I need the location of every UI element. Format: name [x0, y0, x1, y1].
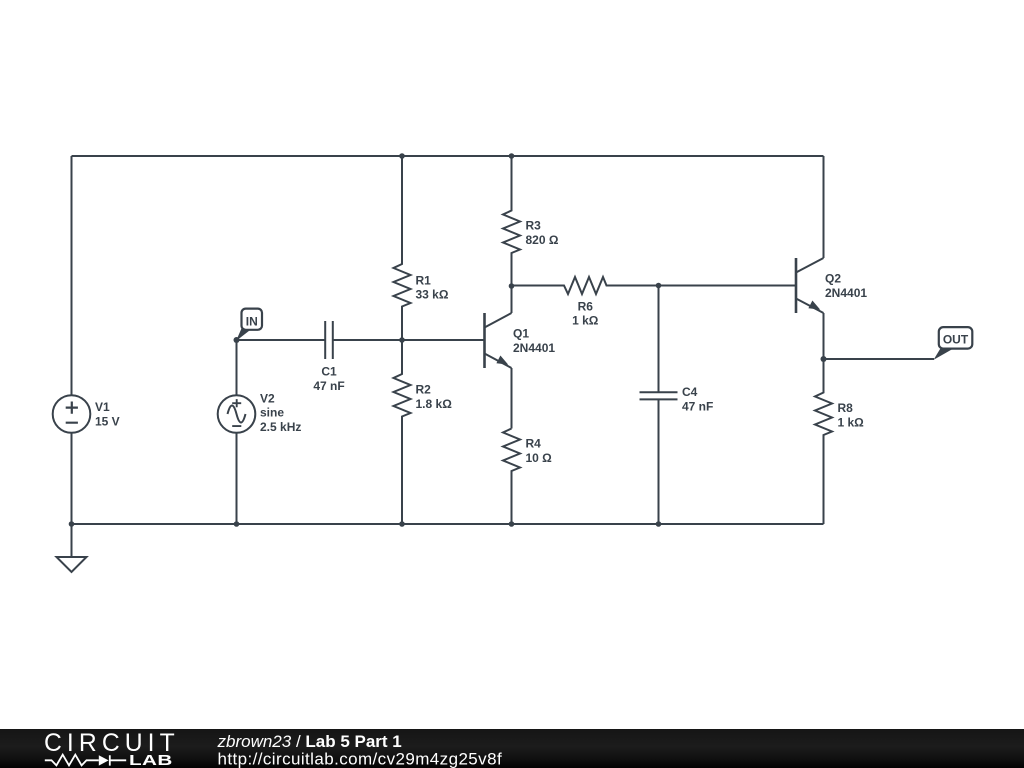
svg-text:C1: C1: [321, 364, 337, 378]
node V2 bottom: [234, 521, 240, 527]
node Q1 base: [399, 337, 405, 343]
svg-text:OUT: OUT: [943, 333, 969, 347]
resistor R8: [815, 359, 832, 524]
svg-text:820 Ω: 820 Ω: [526, 233, 559, 247]
svg-text:R4: R4: [526, 437, 542, 451]
node R3 top: [509, 153, 515, 159]
wire OUT node to flag: [824, 358, 935, 360]
svg-text:2N4401: 2N4401: [513, 341, 555, 355]
svg-text:1 kΩ: 1 kΩ: [838, 415, 865, 429]
resistor R6: [512, 277, 659, 294]
node R4 bottom: [509, 521, 515, 527]
svg-text:V2: V2: [260, 391, 275, 405]
wire V2 top to IN node: [236, 340, 238, 395]
svg-text:10 Ω: 10 Ω: [526, 451, 553, 465]
footer bar: [0, 729, 1024, 768]
svg-text:1 kΩ: 1 kΩ: [572, 314, 599, 328]
resistor R1: [394, 156, 411, 340]
voltage source V2: [218, 395, 256, 433]
node C4 bottom: [656, 521, 662, 527]
resistor R2: [394, 340, 411, 524]
wire V2 bottom to ground rail: [236, 433, 238, 524]
svg-text:R2: R2: [416, 383, 432, 397]
svg-text:47 nF: 47 nF: [682, 400, 713, 414]
svg-text:C4: C4: [682, 385, 698, 399]
svg-text:2N4401: 2N4401: [825, 286, 867, 300]
wire base node to Q1: [402, 339, 485, 341]
svg-text:15 V: 15 V: [95, 414, 120, 428]
svg-text:zbrown23 / Lab 5 Part 1: zbrown23 / Lab 5 Part 1: [217, 732, 402, 751]
resistor R3: [503, 156, 520, 286]
wire C4 node to Q2 base: [659, 285, 797, 287]
svg-text:1.8 kΩ: 1.8 kΩ: [416, 397, 453, 411]
svg-text:47 nF: 47 nF: [313, 379, 344, 393]
wire C4 bottom: [658, 399, 660, 524]
wire left rail lower: [71, 433, 73, 524]
resistor R4: [503, 429, 520, 525]
flag OUT: [934, 327, 973, 360]
node R2 bottom: [399, 521, 405, 527]
svg-text:R1: R1: [416, 273, 432, 287]
svg-text:33 kΩ: 33 kΩ: [416, 288, 449, 302]
node C4 top: [656, 283, 662, 289]
wire top rail: [72, 155, 824, 157]
labels: [95, 218, 867, 465]
svg-text:V1: V1: [95, 400, 110, 414]
wire Q1 collector to node: [511, 286, 513, 313]
svg-text:R6: R6: [578, 299, 594, 313]
wire Q1 emitter down: [511, 368, 513, 429]
flag IN: [236, 309, 262, 341]
node IN: [234, 337, 240, 343]
wire left rail upper: [71, 156, 73, 395]
transistor Q2: [796, 258, 824, 313]
wire Q2 emitter to OUT node: [823, 313, 825, 359]
svg-text:sine: sine: [260, 406, 284, 420]
logo resistor-diode symbol: [45, 755, 126, 766]
svg-text:Q2: Q2: [825, 272, 841, 286]
svg-text:http://circuitlab.com/cv29m4zg: http://circuitlab.com/cv29m4zg25v8f: [218, 750, 503, 768]
wire Q2 collector to top rail: [823, 156, 825, 258]
svg-text:Q1: Q1: [513, 327, 529, 341]
svg-text:R8: R8: [838, 401, 854, 415]
ground: [57, 524, 87, 572]
svg-text:2.5 kHz: 2.5 kHz: [260, 420, 301, 434]
node Q1 collector: [509, 283, 515, 289]
transistor Q1: [485, 313, 512, 368]
node gnd left: [69, 521, 75, 527]
wire bottom rail: [72, 523, 824, 525]
svg-text:R3: R3: [526, 218, 542, 232]
wire C4 top: [658, 286, 660, 393]
voltage source V1: [53, 395, 91, 433]
svg-text:LAB: LAB: [129, 752, 173, 768]
capacitor C4: [640, 392, 678, 399]
svg-text:IN: IN: [246, 315, 258, 329]
wire C1 to base node: [333, 339, 402, 341]
node R1 top: [399, 153, 405, 159]
capacitor C1: [325, 321, 333, 359]
wire IN node to C1: [237, 339, 326, 341]
node OUT: [821, 356, 827, 362]
